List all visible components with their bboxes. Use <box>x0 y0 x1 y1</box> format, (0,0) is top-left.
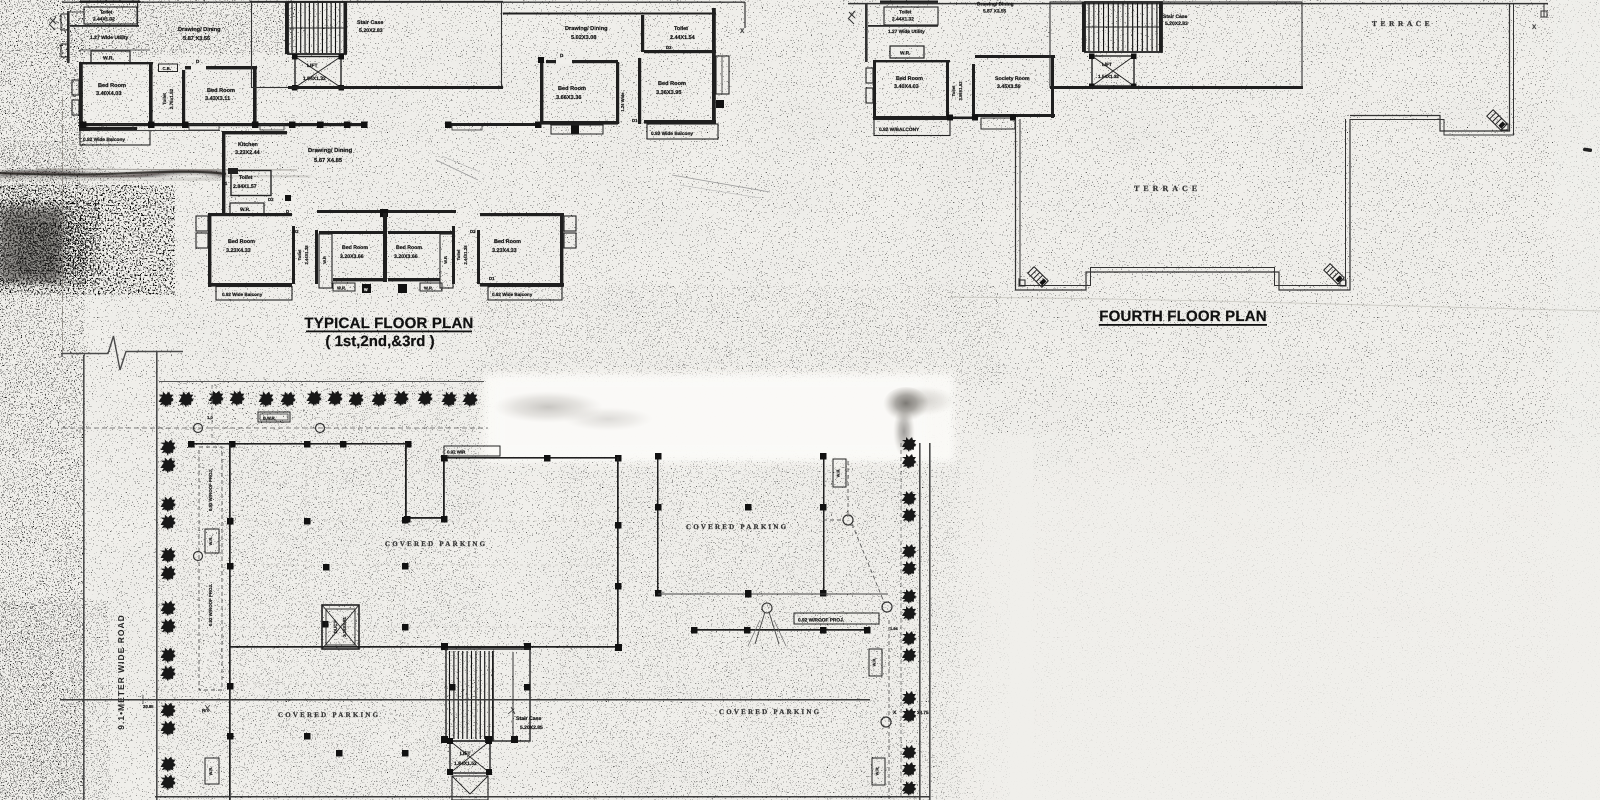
svg-text:COVERED PARKING: COVERED PARKING <box>278 711 380 719</box>
chamber below lift <box>452 776 488 800</box>
W.R. box unit A <box>91 51 130 63</box>
tree column right <box>902 437 918 453</box>
ground lift <box>450 741 490 773</box>
svg-text:3.23X4.33: 3.23X4.33 <box>226 248 251 254</box>
svg-text:5.20X2.83: 5.20X2.83 <box>1165 21 1188 27</box>
W.R. box rotated right <box>833 459 846 487</box>
soft gray smudge in white patch <box>493 391 603 423</box>
svg-text:W.R.: W.R. <box>208 767 213 776</box>
stair hall bottom wall typical <box>288 86 503 89</box>
svg-text:38.75: 38.75 <box>917 710 929 715</box>
svg-text:Bed Room: Bed Room <box>228 239 255 245</box>
W.R. box rotated 2 <box>205 758 219 784</box>
passage walls <box>616 62 619 124</box>
bed room F walls <box>873 60 876 120</box>
svg-text:1.84X1.52: 1.84X1.52 <box>454 761 477 767</box>
W.R. box rotated 1 <box>205 529 219 553</box>
svg-text:LIFT: LIFT <box>460 751 471 757</box>
clean margin bottom right <box>0 0 1 1</box>
central spine wall <box>383 213 387 282</box>
W.R. rotated right bottom <box>872 758 885 785</box>
unit A left outer wall <box>67 11 70 63</box>
svg-text:Toilet: Toilet <box>239 175 253 181</box>
terrace border center inner <box>1020 119 1346 286</box>
survey circle 4 with dashes <box>843 515 853 525</box>
svg-text:5.20X2.83: 5.20X2.83 <box>359 28 383 34</box>
balcony A outline <box>80 131 150 146</box>
bed room B2 walls <box>319 231 383 234</box>
scratch marks <box>672 175 770 192</box>
speckle center band <box>480 285 1000 385</box>
svg-text:TERRACE: TERRACE <box>1134 184 1201 193</box>
dashed tick above roof strip <box>211 385 213 447</box>
svg-text:B.W.R.: B.W.R. <box>263 416 276 421</box>
svg-text:W: W <box>364 288 368 292</box>
survey circle 2 <box>316 424 325 433</box>
svg-text:D2: D2 <box>268 197 274 202</box>
window boxes below C1 <box>551 125 603 134</box>
ground stair hatch <box>446 649 530 741</box>
svg-text:2.44X1.38: 2.44X1.38 <box>304 245 309 265</box>
svg-text:D2: D2 <box>666 45 672 50</box>
right parking left wall <box>657 455 659 595</box>
bottom fixtures row <box>333 283 355 291</box>
interior columns <box>304 518 311 525</box>
svg-text:3.45X3.59: 3.45X3.59 <box>997 84 1021 90</box>
W.R. box unit B <box>230 203 264 214</box>
road inner line <box>156 352 158 800</box>
svg-text:3.66X3.36: 3.66X3.36 <box>556 95 582 101</box>
roof proj box label top <box>444 446 500 456</box>
C.B. box <box>159 64 178 72</box>
svg-text:Stair Case: Stair Case <box>516 716 541 722</box>
svg-text:D1: D1 <box>632 118 638 123</box>
svg-text:2.44X1.54: 2.44X1.54 <box>670 35 695 41</box>
wall below toilet A <box>70 25 139 27</box>
svg-text:Drawing/ Dining: Drawing/ Dining <box>308 147 353 154</box>
speckle cloud left middle <box>0 185 175 295</box>
svg-text:3.36X3.95: 3.36X3.95 <box>656 90 682 96</box>
svg-text:2.44X1.32: 2.44X1.32 <box>93 17 115 23</box>
parking building bottom wall <box>229 646 620 648</box>
svg-text:1.24 Wide: 1.24 Wide <box>620 92 625 112</box>
bottom boundary line <box>155 796 930 798</box>
svg-text:Bed Room: Bed Room <box>658 80 686 87</box>
svg-text:COVERED PARKING: COVERED PARKING <box>686 523 788 531</box>
left Y arrow mark <box>49 17 56 30</box>
bed room B4 walls <box>480 213 564 216</box>
W.R. rotated right lower <box>869 649 882 676</box>
svg-text:X: X <box>740 28 745 35</box>
road top cap line with break <box>62 336 183 370</box>
speckle top left corner <box>55 0 295 55</box>
corridor sill line <box>90 130 220 132</box>
parking building left wall <box>229 443 231 800</box>
bed room B4 shafts <box>564 216 576 231</box>
svg-text:1.94: 1.94 <box>890 626 899 631</box>
fourth plan top boundary line <box>848 3 1548 5</box>
toilet A top wall <box>80 1 140 3</box>
fourth plan top right hook <box>1541 4 1547 17</box>
tree row top line <box>159 381 484 383</box>
svg-text:2.84X1.57: 2.84X1.57 <box>233 184 257 190</box>
site double boundary right <box>919 443 921 800</box>
duct box <box>322 605 359 649</box>
svg-text:3.43X3.11: 3.43X3.11 <box>205 96 230 102</box>
svg-text:5.87 X3.55: 5.87 X3.55 <box>183 36 210 42</box>
svg-text:D1: D1 <box>489 276 495 281</box>
toilet B1 strip walls <box>292 226 295 284</box>
bed room B1 shafts <box>196 216 208 231</box>
svg-text:1.27 Wide Utility: 1.27 Wide Utility <box>90 35 129 41</box>
terrace border right arm outer <box>1350 4 1510 131</box>
dashed tree line right <box>900 443 902 800</box>
svg-text:LIFT: LIFT <box>1102 62 1112 67</box>
svg-text:COVERED PARKING: COVERED PARKING <box>719 708 821 716</box>
roof proj box label lower <box>794 613 879 624</box>
unit A outer wall window boxes <box>61 14 68 30</box>
svg-text:Bed Room: Bed Room <box>396 245 422 251</box>
svg-text:Bed Room: Bed Room <box>98 82 126 89</box>
svg-text:1.0: 1.0 <box>207 415 213 420</box>
stair hall outline typical <box>252 2 502 88</box>
long site line <box>60 699 870 701</box>
svg-text:Bed Room: Bed Room <box>896 76 923 82</box>
svg-text:Drawing/ Dining: Drawing/ Dining <box>178 26 221 33</box>
balcony B1 <box>216 287 292 301</box>
svg-text:Kitchen: Kitchen <box>238 142 258 148</box>
typical plan top boundary line <box>62 1 745 3</box>
bed room A1 walls <box>79 62 83 131</box>
bed room C1 bottom wall <box>540 121 618 125</box>
lift fourth <box>1092 56 1134 86</box>
svg-text:5.02X3.08: 5.02X3.08 <box>571 35 597 41</box>
white-out patch over site plan <box>484 374 954 462</box>
W.R. box F <box>890 46 924 58</box>
svg-text:3.23X4.33: 3.23X4.33 <box>492 248 517 254</box>
svg-text:1.54X1.32: 1.54X1.32 <box>1098 74 1119 79</box>
svg-text:Bed Room: Bed Room <box>494 239 521 245</box>
survey circle 3 <box>194 552 203 561</box>
svg-text:3.16X3.81: 3.16X3.81 <box>342 616 347 637</box>
svg-text:( 1st,2nd,&3rd ): ( 1st,2nd,&3rd ) <box>325 333 434 350</box>
svg-text:D2: D2 <box>293 229 299 234</box>
parking building top right wall <box>443 457 620 459</box>
svg-text:3.23X2.44: 3.23X2.44 <box>235 150 260 156</box>
toilet F top wall <box>880 1 938 3</box>
svg-text:0.92 Wide Balcony: 0.92 Wide Balcony <box>492 292 533 297</box>
bed room A2 top wall <box>185 66 257 69</box>
stair hall outline fourth <box>1050 2 1302 88</box>
svg-text:D2: D2 <box>470 229 476 234</box>
stair hall bottom wall fourth <box>1050 86 1303 89</box>
bed room B3 walls <box>388 231 455 234</box>
unit C upper wall line <box>503 13 716 15</box>
toilet A room box <box>84 7 137 24</box>
wall below toilet F <box>868 25 938 27</box>
svg-text:3.20X3.66: 3.20X3.66 <box>340 254 364 260</box>
svg-text:0.92 W/ROOF PROJ.: 0.92 W/ROOF PROJ. <box>798 618 844 624</box>
left faint vertical line <box>62 98 64 360</box>
svg-text:0.92 W/ROOF PROJ.: 0.92 W/ROOF PROJ. <box>208 584 213 626</box>
right parking bottom line <box>658 593 888 595</box>
bed room A2 right wall <box>253 66 257 128</box>
terrace slope mark upper right <box>1487 110 1508 131</box>
typical plan right end <box>744 2 746 28</box>
svg-text:C.B.: C.B. <box>163 66 171 71</box>
bed room C2 bottom wall <box>644 120 716 124</box>
ground stair top wall <box>443 646 531 648</box>
svg-text:0.93 W/ROOF PROJ.: 0.93 W/ROOF PROJ. <box>208 469 213 511</box>
svg-text:0.92 W/R: 0.92 W/R <box>447 450 466 455</box>
road outer line <box>83 355 85 800</box>
svg-text:9.1•METER WIDE ROAD: 9.1•METER WIDE ROAD <box>116 614 126 729</box>
svg-text:W.R.: W.R. <box>240 207 250 213</box>
terrace slope mark right <box>1324 264 1345 285</box>
unit C right wall <box>712 8 716 124</box>
society room step below <box>981 118 1015 129</box>
bedroom beam wall <box>317 210 456 213</box>
svg-text:Toilet: Toilet <box>297 249 302 260</box>
svg-text:2.44X1.38: 2.44X1.38 <box>463 245 468 265</box>
survey circle 6 with X and 38.75 <box>881 717 891 727</box>
svg-text:LIFT: LIFT <box>307 63 318 69</box>
svg-text:3.40X4.03: 3.40X4.03 <box>894 84 919 90</box>
svg-text:Stair Case: Stair Case <box>1163 14 1188 20</box>
svg-text:5.20X2.85: 5.20X2.85 <box>520 725 543 731</box>
balcony B4 <box>488 287 562 301</box>
toilet F box <box>884 7 938 25</box>
svg-text:DUCT: DUCT <box>333 620 338 633</box>
B.WALL box label <box>258 412 290 422</box>
toilet B box <box>231 171 271 196</box>
parking building top wall <box>191 443 408 445</box>
svg-text:0.92 Wide Balcony: 0.92 Wide Balcony <box>222 292 263 297</box>
svg-text:2.75x1.52: 2.75x1.52 <box>169 88 174 109</box>
svg-text:TYPICAL FLOOR PLAN: TYPICAL FLOOR PLAN <box>304 315 473 332</box>
svg-text:2.44X1.32: 2.44X1.32 <box>892 17 914 23</box>
svg-text:Stair Case: Stair Case <box>357 20 383 26</box>
svg-text:Drawing/ Dining: Drawing/ Dining <box>565 25 608 32</box>
unit C right windows <box>716 56 729 94</box>
speckle site plan area <box>158 378 480 800</box>
svg-text:FOURTH FLOOR PLAN: FOURTH FLOOR PLAN <box>1099 308 1267 325</box>
svg-text:0.92 Wide Balcony: 0.92 Wide Balcony <box>83 137 125 143</box>
svg-text:0.92 W/BALCONY: 0.92 W/BALCONY <box>879 127 920 133</box>
lift typical <box>295 57 341 88</box>
tree row top <box>158 391 175 408</box>
svg-text:W.R.: W.R. <box>103 56 114 62</box>
kitchen walls <box>222 131 225 213</box>
svg-text:5.67 X4.85: 5.67 X4.85 <box>314 157 343 164</box>
svg-text:V1: V1 <box>222 181 228 186</box>
scan fold faint line <box>950 297 1600 311</box>
survey circle 5 <box>882 602 892 612</box>
svg-text:X: X <box>1532 24 1537 31</box>
svg-text:COVERED PARKING: COVERED PARKING <box>385 540 487 548</box>
lower wing wall <box>693 629 869 631</box>
dark scanner blob right of site plan <box>883 387 929 423</box>
bed room F windows <box>866 68 873 83</box>
ink dash right margin <box>1583 147 1592 152</box>
corridor wall right segment <box>445 123 541 126</box>
corridor wall fourth <box>950 117 978 120</box>
svg-text:W.R.: W.R. <box>208 537 213 546</box>
svg-text:Bed Room: Bed Room <box>342 245 368 251</box>
svg-text:1.54X1.32: 1.54X1.32 <box>303 76 326 82</box>
svg-text:Bed Room: Bed Room <box>207 87 235 94</box>
svg-text:Drawing/ Dining: Drawing/ Dining <box>977 2 1014 8</box>
column grid dashed lines <box>233 520 616 522</box>
corridor wall typical plan <box>80 123 365 126</box>
svg-text:3.20X3.66: 3.20X3.66 <box>394 254 418 260</box>
toilet B2 strip walls <box>452 226 455 284</box>
svg-text:20.85: 20.85 <box>143 704 154 709</box>
svg-text:W.R.: W.R. <box>836 469 841 478</box>
speckle bottom left <box>0 600 110 800</box>
roof projection dashed strip <box>199 447 222 690</box>
svg-text:Toilet: Toilet <box>456 249 461 260</box>
dashed vertical right <box>888 620 890 800</box>
svg-text:Society Room: Society Room <box>995 76 1030 82</box>
terrace border right arm inner <box>1350 4 1514 135</box>
parking building notch walls <box>405 443 407 520</box>
right parking columns <box>745 504 752 511</box>
ground stair inner blocks <box>441 736 448 743</box>
balcony C <box>647 124 718 139</box>
unit C left wall <box>540 58 543 124</box>
svg-text:Toilet: Toilet <box>899 10 912 16</box>
svg-text:1.27 Wide Utility: 1.27 Wide Utility <box>888 29 925 35</box>
toilet A2 right wall <box>182 70 185 127</box>
parking building right wall <box>617 457 619 648</box>
society room walls <box>975 55 1055 58</box>
svg-text:Toilet: Toilet <box>674 26 688 32</box>
fourth left outer wall <box>865 4 868 62</box>
svg-text:W.R: W.R <box>443 256 448 264</box>
svg-text:Toilet: Toilet <box>162 93 167 105</box>
svg-text:Toilet: Toilet <box>951 85 956 96</box>
speckle noise left margin <box>0 0 85 800</box>
stair case hatch fourth <box>1085 2 1162 52</box>
svg-text:3.40X4.03: 3.40X4.03 <box>96 91 122 97</box>
fourth plan left Y mark <box>848 11 855 24</box>
svg-text:3.59X1.52: 3.59X1.52 <box>958 81 963 101</box>
ramp marks <box>762 603 772 613</box>
bed room C1 top wall <box>546 60 618 63</box>
survey circle 1 <box>194 424 203 433</box>
dark smudge streak left <box>0 170 225 176</box>
balcony F <box>874 120 950 136</box>
toilet C walls <box>641 15 644 52</box>
terrace slope mark left <box>1028 267 1049 288</box>
terrace border center outer <box>1016 119 1351 290</box>
stair case hatch typical <box>288 2 346 54</box>
svg-text:W.R.: W.R. <box>424 286 433 291</box>
svg-text:Bed Room: Bed Room <box>558 85 586 92</box>
svg-text:W.R.: W.R. <box>337 286 346 291</box>
svg-text:Toilet: Toilet <box>100 10 113 16</box>
bed room B1 walls <box>208 213 292 216</box>
svg-text:W.R: W.R <box>322 256 327 264</box>
toilet F2 strip walls <box>946 60 949 118</box>
svg-text:W.R.: W.R. <box>872 658 877 667</box>
svg-text:TERRACE: TERRACE <box>1372 19 1433 28</box>
svg-text:W.R.: W.R. <box>875 767 880 776</box>
boundary dashed line upper <box>62 427 488 429</box>
right parking right wall <box>823 455 825 595</box>
svg-text:W.R.: W.R. <box>900 51 910 57</box>
svg-text:0.92 Wide Balcony: 0.92 Wide Balcony <box>651 131 693 137</box>
bed room A1 windows <box>72 80 79 95</box>
svg-text:5.87 X3.55: 5.87 X3.55 <box>983 9 1007 15</box>
tree column left <box>160 439 177 456</box>
